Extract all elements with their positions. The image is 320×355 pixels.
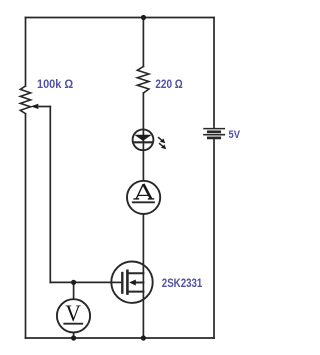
wire wiper vertical xyxy=(49,107,51,283)
wire top horizontal xyxy=(26,17,215,19)
MOSFET Q1 body arrow xyxy=(129,280,136,286)
wire ammeter to MOSFET/bottom xyxy=(142,215,144,339)
node top junction xyxy=(141,15,146,20)
ammeter M1 underline xyxy=(133,201,154,203)
wire right rail upper xyxy=(213,18,215,129)
potentiometer VR1 wiper arrow xyxy=(31,104,39,109)
LED D1 triangle xyxy=(134,135,151,141)
MOSFET Q1 source stub xyxy=(127,291,143,293)
wire bottom horizontal xyxy=(26,337,215,339)
wire resistor to LED xyxy=(142,93,144,129)
wire left rail upper xyxy=(25,18,27,87)
voltmeter M2 circle xyxy=(57,299,90,332)
MOSFET Q1 gate bar xyxy=(121,273,123,293)
ammeter M1 circle xyxy=(127,181,160,214)
LED D1 wire through xyxy=(142,129,144,180)
potentiometer VR1 zigzag xyxy=(20,86,30,114)
MOSFET Q1 circle xyxy=(111,262,152,303)
voltmeter M2 underline xyxy=(64,323,82,325)
wire voltmeter top stem xyxy=(73,282,75,299)
svg-text:2SK2331: 2SK2331 xyxy=(162,276,203,290)
svg-text:220 Ω: 220 Ω xyxy=(155,77,183,91)
MOSFET Q1 gate lead inside circle xyxy=(111,281,122,283)
LED D1 light arrow 1 xyxy=(159,138,166,144)
svg-text:5V: 5V xyxy=(229,129,241,141)
wire left rail lower xyxy=(25,114,27,338)
wire gate horizontal xyxy=(50,281,111,283)
resistor R1 220ohm zigzag xyxy=(137,67,149,94)
MOSFET Q1 channel bar xyxy=(126,271,129,294)
wire middle branch upper xyxy=(142,18,144,67)
LED D1 circle xyxy=(133,129,154,150)
wire right rail lower xyxy=(213,139,215,338)
MOSFET Q1 body stub xyxy=(134,282,143,284)
node bottom voltmeter junction xyxy=(71,335,76,340)
battery BT1 5V xyxy=(204,129,224,138)
svg-text:V: V xyxy=(65,301,81,326)
ammeter M1 letter A xyxy=(133,184,154,199)
LED D1 cathode bar xyxy=(134,141,153,143)
wire voltmeter bottom stem xyxy=(73,333,75,339)
node gate junction xyxy=(71,280,76,285)
node bottom middle junction xyxy=(141,335,146,340)
svg-text:100k Ω: 100k Ω xyxy=(37,77,74,91)
wire wiper horizontal xyxy=(38,106,50,108)
MOSFET Q1 drain stub xyxy=(127,272,143,274)
LED D1 light arrow 2 xyxy=(160,144,167,150)
